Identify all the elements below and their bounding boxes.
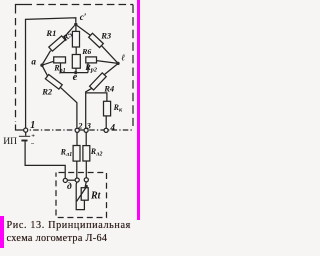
svg-text:ℓ: ℓ xyxy=(121,52,125,62)
terminal 2 xyxy=(75,122,82,133)
svg-text:Rк: Rк xyxy=(113,103,123,113)
svg-text:Rt: Rt xyxy=(90,191,102,202)
svg-text:c′: c′ xyxy=(80,12,87,22)
wire Rp2 to b xyxy=(97,61,118,64)
wire terminal 2 to Rl1 xyxy=(76,132,78,145)
sensor terminal B xyxy=(75,178,79,182)
instrument boundary dash-dot line through terminals xyxy=(22,129,133,131)
wire junction to Rk xyxy=(86,93,107,101)
wire R4 down to terminal 3 xyxy=(86,88,92,128)
resistor R2 xyxy=(45,74,62,89)
svg-text:Rл2: Rл2 xyxy=(90,147,103,157)
wire B down into loop xyxy=(76,182,84,210)
terminal 4 xyxy=(104,123,115,133)
battery long plate xyxy=(19,135,30,137)
svg-text:д: д xyxy=(67,181,72,192)
wire R1 to node a xyxy=(42,51,50,65)
instrument dashed border xyxy=(16,5,134,131)
svg-text:Rр2: Rр2 xyxy=(84,63,97,73)
svg-text:R6: R6 xyxy=(81,47,91,56)
svg-text:е: е xyxy=(73,72,78,83)
magenta strip right xyxy=(137,0,140,220)
resistor R5 xyxy=(72,31,79,47)
magenta strip bottom-left xyxy=(0,216,4,249)
wire Rl1 to sensor terminal xyxy=(76,161,78,178)
svg-text:1: 1 xyxy=(30,120,35,131)
svg-text:Rр1: Rр1 xyxy=(53,63,66,73)
resistor Rl1 xyxy=(60,146,80,162)
wire terminal 1 to battery xyxy=(25,132,27,136)
svg-text:2: 2 xyxy=(77,122,82,131)
svg-text:−: − xyxy=(31,141,35,148)
caption line 1 xyxy=(7,220,131,232)
wire C down to Rt xyxy=(85,182,86,188)
svg-text:+: + xyxy=(31,132,35,139)
wire Rk to terminal 4 xyxy=(105,116,107,128)
terminal 1 xyxy=(24,120,36,132)
svg-text:4: 4 xyxy=(109,123,115,133)
caption line 2 xyxy=(7,233,108,245)
wire R3 to node b xyxy=(101,45,118,63)
wire battery to sensor terminal xyxy=(25,142,65,179)
svg-text:Rл1: Rл1 xyxy=(60,148,73,158)
wire c to R1 xyxy=(64,26,74,38)
svg-text:R2: R2 xyxy=(41,87,53,97)
resistor Rk xyxy=(104,101,123,116)
coil Rp2 xyxy=(84,57,97,74)
svg-text:ИП: ИП xyxy=(3,136,17,147)
svg-text:3: 3 xyxy=(86,122,91,131)
wire R5 to R6 xyxy=(75,47,77,55)
wire a to R2 xyxy=(43,66,48,76)
wire: terminal 1 up left side and across top to node c xyxy=(26,18,76,128)
wire a to Rp1 xyxy=(44,61,54,64)
svg-text:R3: R3 xyxy=(100,30,112,40)
node b xyxy=(116,52,125,65)
svg-text:R1: R1 xyxy=(45,28,56,38)
resistor R1 xyxy=(49,36,65,51)
wire b to R4 xyxy=(104,65,117,75)
wire c to R5 xyxy=(75,26,77,31)
battery short plate xyxy=(21,140,27,142)
sensor terminal C xyxy=(84,178,88,182)
sensor terminal A xyxy=(63,178,67,182)
wire c to R3 xyxy=(77,26,91,36)
wire Rl2 to sensor terminal xyxy=(85,161,87,178)
node e and coil rail xyxy=(61,71,89,83)
terminal 3 xyxy=(84,122,91,133)
jumper d xyxy=(67,180,75,192)
resistor R6 xyxy=(72,55,80,69)
svg-text:R4: R4 xyxy=(103,84,115,94)
wire R2 down to terminal 2 xyxy=(60,87,77,128)
coil Rp1 xyxy=(53,57,66,74)
sensor dashed box xyxy=(56,173,107,218)
svg-text:а: а xyxy=(31,56,36,66)
node c xyxy=(74,12,87,26)
wire terminal 3 to Rl2 xyxy=(85,132,87,145)
wire R6 to node e xyxy=(75,68,77,72)
resistor Rl2 xyxy=(83,146,103,161)
resistor R3 xyxy=(89,33,104,47)
resistor R4 xyxy=(90,73,107,90)
thermometer Rt xyxy=(77,185,102,201)
label R5 (rotated along diagonal) xyxy=(60,30,74,44)
node a xyxy=(31,56,43,66)
